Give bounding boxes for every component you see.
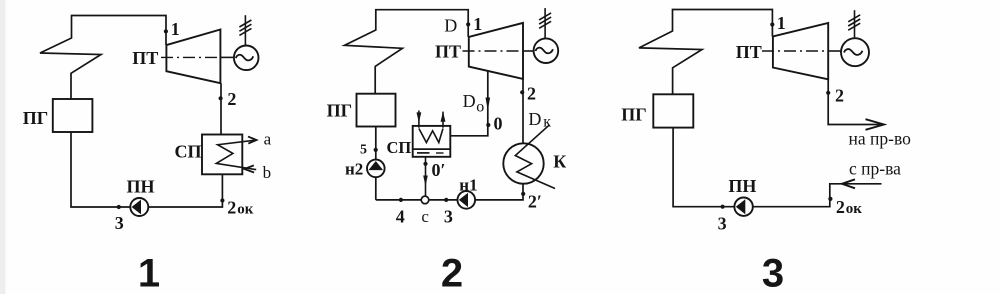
svg-text:2: 2 (227, 198, 236, 218)
svg-text:СП: СП (175, 142, 202, 162)
svg-text:на пр-во: на пр-во (849, 129, 912, 149)
svg-text:2: 2 (227, 89, 236, 109)
svg-text:1: 1 (138, 252, 160, 294)
svg-text:4: 4 (396, 206, 405, 226)
svg-text:b: b (263, 163, 272, 182)
svg-text:с: с (421, 207, 429, 226)
svg-text:3: 3 (718, 214, 727, 234)
svg-text:0: 0 (494, 114, 503, 134)
svg-text:о: о (476, 99, 484, 116)
svg-text:ПТ: ПТ (435, 42, 461, 62)
svg-text:3: 3 (762, 252, 784, 294)
svg-text:2′: 2′ (528, 191, 542, 211)
svg-text:1: 1 (777, 13, 786, 33)
svg-text:D: D (463, 91, 476, 111)
svg-text:н2: н2 (345, 160, 363, 179)
svg-text:ПГ: ПГ (23, 108, 48, 128)
svg-text:2: 2 (527, 83, 536, 103)
svg-text:2: 2 (835, 85, 844, 105)
svg-text:СП: СП (387, 138, 412, 157)
svg-text:2: 2 (441, 252, 463, 294)
svg-text:к: к (543, 113, 551, 130)
svg-text:ПГ: ПГ (327, 100, 352, 120)
svg-text:н1: н1 (459, 176, 477, 195)
svg-text:D: D (528, 109, 541, 129)
svg-text:2: 2 (836, 197, 845, 217)
svg-text:ок: ок (846, 201, 863, 217)
svg-text:ПН: ПН (728, 176, 756, 196)
svg-text:0′: 0′ (432, 160, 446, 180)
svg-text:3: 3 (444, 206, 453, 226)
svg-text:5: 5 (360, 143, 367, 158)
svg-text:К: К (553, 151, 566, 171)
svg-text:с пр-ва: с пр-ва (849, 159, 901, 179)
svg-text:D: D (444, 15, 457, 35)
svg-text:a: a (264, 130, 272, 149)
svg-text:ок: ок (237, 202, 254, 218)
svg-text:ПН: ПН (127, 177, 155, 197)
svg-text:3: 3 (115, 213, 124, 233)
svg-text:ПТ: ПТ (736, 42, 762, 62)
svg-text:1: 1 (473, 14, 482, 34)
svg-text:1: 1 (171, 19, 180, 39)
svg-text:ПТ: ПТ (132, 48, 158, 68)
svg-text:ПГ: ПГ (621, 105, 646, 125)
